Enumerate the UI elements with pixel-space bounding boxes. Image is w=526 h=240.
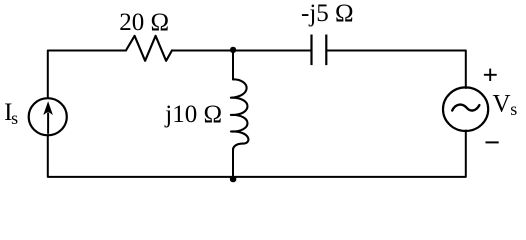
svg-text:j10 Ω: j10 Ω xyxy=(164,101,222,128)
voltage source sine tilde xyxy=(452,105,479,111)
minus sign (−) xyxy=(486,141,499,143)
wire: bottom node to bottom-left corner up to current source xyxy=(48,135,233,177)
wire: voltage source bottom to bottom-right corner to bottom node xyxy=(233,131,466,177)
current source Is circle xyxy=(29,98,67,135)
resistor 20Ω xyxy=(126,36,172,61)
svg-text:s: s xyxy=(510,99,517,119)
junction node bottom xyxy=(230,176,237,183)
capacitor -j5Ω left plate xyxy=(310,35,312,66)
wire: resistor to top node xyxy=(172,50,233,52)
wire: top node down to inductor top xyxy=(232,51,234,80)
inductor j10Ω (4 loops with cusps) xyxy=(231,79,249,150)
svg-text:20 Ω: 20 Ω xyxy=(119,9,169,36)
capacitor -j5Ω right plate xyxy=(325,35,327,66)
current source arrow xyxy=(43,101,53,134)
svg-text:V: V xyxy=(493,91,511,118)
junction node top xyxy=(230,47,236,53)
svg-text:-j5 Ω: -j5 Ω xyxy=(301,0,354,27)
wire: current source top to top-left corner to resistor xyxy=(48,51,126,99)
wire: inductor bottom to bottom node xyxy=(232,149,234,177)
voltage source Vs circle xyxy=(443,87,488,131)
wire: top node to capacitor left plate xyxy=(233,50,310,52)
plus sign (+) xyxy=(484,69,497,81)
wire: capacitor right plate to top-right corner down to voltage source xyxy=(327,51,465,89)
svg-text:s: s xyxy=(11,108,18,128)
